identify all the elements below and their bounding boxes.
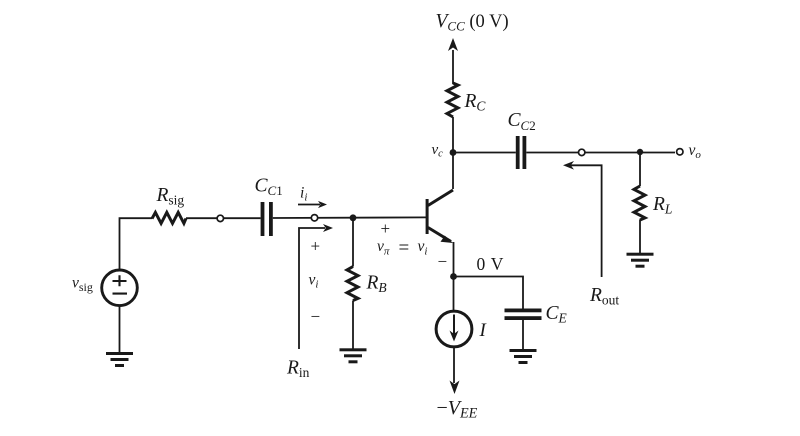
ground (RB) [340,348,367,363]
wire: vo node down to RL [639,153,641,187]
wire: vsig bottom to ground [119,306,121,353]
label CE [546,303,568,326]
label vsig [72,275,93,294]
label RB [366,273,387,296]
resistor Rsig [152,212,186,223]
svg-text:RC: RC [464,91,487,114]
ground (RL) [627,253,654,268]
label vc [432,142,444,160]
node B junction dot [350,214,357,221]
open terminal circle [579,149,585,155]
label + (vpi) [381,219,391,238]
svg-text:I: I [479,320,488,341]
resistor RL [634,186,645,220]
label RL [652,194,672,217]
svg-text:CE: CE [546,303,568,326]
label vo [689,142,702,161]
label I [479,320,488,341]
label + (vi) [311,237,321,256]
svg-text:RL: RL [652,194,672,217]
svg-text:Rsig: Rsig [156,185,185,208]
current arrow ii [298,201,327,208]
power VCC arrow [448,38,458,84]
label -VEE [437,397,478,421]
wire: CE to ground [522,320,524,349]
label vpi = vi [377,238,427,259]
svg-text:ii: ii [300,185,307,204]
ground (CE) [510,349,537,364]
wire: vsig top to Rsig [120,218,153,270]
svg-text:−: − [311,307,321,326]
svg-text:Rout: Rout [589,285,619,307]
label 0 V [477,254,504,274]
label CC2 [508,110,536,133]
node junction dot (RL) [637,149,643,155]
svg-text:CC2: CC2 [508,110,536,133]
node vc dot [450,149,457,156]
svg-text:VCC (0 V): VCC (0 V) [436,11,509,34]
svg-text:Rin: Rin [286,358,310,380]
wire: node B down to RB [352,218,354,267]
svg-text:+: + [381,219,391,238]
label CC1 [255,176,283,199]
wire: CC2 to vo [526,152,675,154]
ground (vsig) [106,352,133,367]
svg-text:−VEE: −VEE [437,397,478,421]
label RC [464,91,487,114]
svg-text:−: − [438,252,448,271]
svg-text:vi: vi [418,238,428,257]
svg-text:0 V: 0 V [477,254,504,274]
label Rsig [156,185,185,208]
transistor Q1 [426,190,453,243]
label Rin arrow [299,224,333,349]
wire: RB to ground [352,301,354,350]
label vi [309,272,319,291]
svg-text:vo: vo [689,142,702,161]
wire: emitter node to CE [454,277,524,309]
voltage source vsig [102,270,138,306]
wire: vc up to RC [452,117,454,153]
label Rout arrow [563,161,602,277]
open terminal circle [217,215,223,221]
label VCC (0 V) [436,11,509,34]
capacitor CC2 [516,136,527,169]
svg-text:vc: vc [432,142,444,160]
open terminal circle [311,215,317,221]
label Rout [589,285,619,307]
svg-text:CC1: CC1 [255,176,283,199]
open terminal vo [677,149,683,155]
capacitor CE [505,309,542,321]
svg-text:vi: vi [309,272,319,291]
resistor RB [347,267,358,301]
label - (vi) [311,307,321,326]
label ii [300,185,307,204]
wire: RL to ground [639,220,641,254]
capacitor CC1 [261,202,273,236]
label Rin [286,358,310,380]
power -VEE arrow [450,348,460,395]
current source I [436,311,472,347]
node E junction dot [450,273,457,280]
wire: collector up [452,153,454,190]
svg-text:RB: RB [366,273,387,296]
label - (vpi) [438,252,448,271]
wire: emitter down [453,242,455,311]
svg-text:vπ: vπ [377,238,390,257]
svg-text:+: + [311,237,321,256]
wire: CC1 to base node [273,216,427,219]
resistor RC [447,83,458,117]
wire: Rsig to CC1 [186,217,261,219]
wire: vc to CC2 [453,152,516,154]
svg-text:=: = [399,238,410,259]
svg-text:vsig: vsig [72,275,93,294]
